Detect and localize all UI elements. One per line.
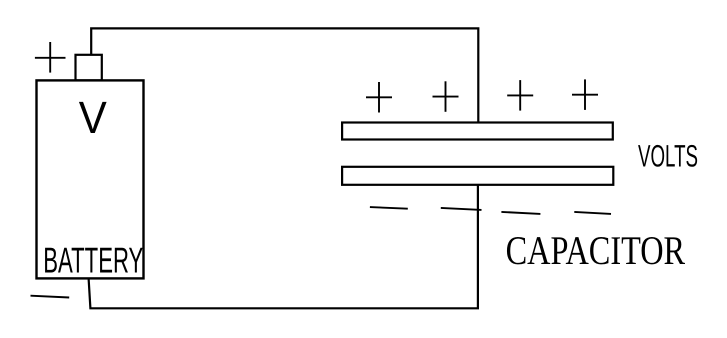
battery B1 (37, 80, 144, 278)
capacitor top plate (342, 123, 613, 140)
svg-text:V: V (79, 92, 107, 143)
plus charge symbols on top plate (366, 79, 598, 112)
battery minus terminal symbol (31, 296, 70, 298)
battery plus terminal symbol (35, 42, 66, 73)
svg-text:VOLTS: VOLTS (638, 139, 698, 174)
svg-text:BATTERY: BATTERY (43, 240, 143, 281)
svg-text:CAPACITOR: CAPACITOR (506, 228, 686, 273)
capacitor bottom plate (342, 167, 613, 185)
wire bottom from battery to capacitor bottom plate (89, 185, 478, 308)
minus charge symbols on bottom plate (370, 207, 611, 214)
battery terminal (76, 55, 102, 81)
wire top from battery terminal to capacitor top plate (91, 28, 478, 122)
